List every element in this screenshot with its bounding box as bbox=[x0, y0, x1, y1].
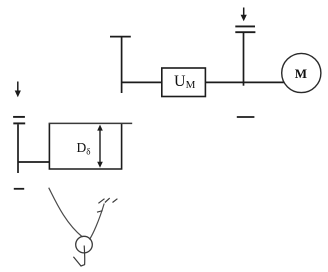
capacitor C1 plates bbox=[235, 25, 255, 27]
terminal T1 vertical lead bbox=[121, 37, 123, 93]
ground dash under junction bbox=[237, 116, 255, 118]
wire U_M box to motor bbox=[205, 81, 284, 83]
bob arrow barb bbox=[73, 257, 84, 266]
pendulum bob bbox=[76, 236, 93, 253]
svg-text:M: M bbox=[295, 66, 307, 81]
terminal T1 top bar bbox=[110, 36, 131, 38]
arrow onto capacitor C2 bbox=[17, 82, 19, 92]
bob arrow shaft bbox=[83, 246, 86, 265]
wire junction to capacitor C1 bbox=[243, 33, 245, 86]
capacitor C2 lead down bbox=[17, 124, 19, 173]
arrow onto capacitor C1 bbox=[243, 8, 245, 17]
tick on string bbox=[97, 211, 103, 213]
wire terminal to U_M box bbox=[122, 81, 162, 83]
pendulum trajectory curve bbox=[49, 188, 83, 237]
ground dash lower left bbox=[14, 188, 24, 190]
plate box D (open top drawn separately) bbox=[49, 123, 121, 169]
pendulum string bbox=[90, 204, 105, 240]
capacitor C2 plates bbox=[13, 116, 25, 118]
motor M circle bbox=[282, 53, 321, 92]
wire C2 to D box bbox=[18, 161, 49, 163]
top plate line extending right bbox=[49, 122, 133, 124]
support hatch marks bbox=[98, 199, 104, 204]
block U_M bbox=[162, 68, 206, 97]
gap dimension double arrow bbox=[99, 127, 101, 166]
